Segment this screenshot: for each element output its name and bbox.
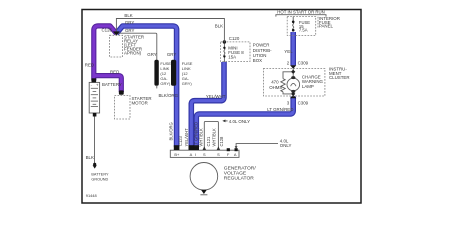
thin wires	[95, 15, 327, 164]
connector C120 dot	[223, 40, 226, 43]
svg-text:4.0L ONLY: 4.0L ONLY	[229, 119, 250, 124]
svg-text:BLK: BLK	[215, 23, 223, 28]
lamp terminal bottom	[291, 90, 295, 93]
generator circle	[190, 163, 218, 191]
terminal A square	[235, 148, 238, 151]
wire into mini fuse	[223, 44, 225, 48]
junction node top	[291, 70, 295, 74]
svg-text:GRY: GRY	[147, 52, 157, 57]
svg-text:C128: C128	[219, 136, 224, 147]
wire mini fuse to YEL/WHT	[223, 56, 225, 62]
svg-text:REGULATOR: REGULATOR	[224, 176, 254, 182]
svg-text:BLK: BLK	[124, 13, 132, 18]
svg-text:15A: 15A	[228, 54, 236, 59]
wire YEL fuse to cluster	[292, 32, 295, 65]
svg-text:A: A	[190, 152, 193, 157]
svg-text:MOTOR: MOTOR	[132, 101, 148, 106]
wire S-loop WHT/BLK C121-C128	[204, 121, 218, 149]
svg-text:YEL/WHT: YEL/WHT	[206, 94, 226, 99]
svg-text:BATTERY: BATTERY	[102, 82, 122, 87]
svg-text:A: A	[234, 152, 237, 157]
interior fuse panel text bracket	[317, 17, 319, 28]
svg-text:GRY: GRY	[167, 52, 177, 57]
border frame (decorative)	[82, 10, 361, 204]
terminal cap A wire	[189, 145, 195, 150]
mini fuse 8 element	[224, 48, 225, 57]
svg-text:7.5A: 7.5A	[299, 28, 308, 33]
svg-text:I: I	[195, 152, 196, 157]
wire GRY to fuse link 1	[116, 33, 156, 60]
battery	[89, 82, 99, 113]
svg-text:RED: RED	[110, 70, 119, 75]
svg-text:GRY): GRY)	[160, 81, 171, 86]
svg-text:C121: C121	[206, 136, 211, 147]
generator ground	[201, 190, 207, 194]
wire RED battery positive (purple core)	[94, 26, 122, 92]
svg-text:BLK/ORG: BLK/ORG	[159, 93, 179, 98]
connector C121 flare	[203, 146, 207, 150]
terminal F square	[227, 148, 230, 151]
connector C309 top triangle	[290, 65, 296, 69]
wire stub below fuse link 1	[156, 86, 158, 88]
starter relay box	[110, 35, 123, 57]
hot in start or run bracket	[276, 15, 326, 17]
svg-text:GENERATOR/: GENERATOR/	[224, 166, 257, 172]
wire battery negative BLK	[94, 116, 96, 163]
vertical wire labels	[168, 122, 224, 146]
svg-text:C126: C126	[102, 27, 113, 32]
fuse 15 terminal dots	[292, 21, 295, 24]
svg-text:C123: C123	[178, 135, 183, 146]
resistor branch bottom	[283, 92, 293, 94]
starter motor terminal	[119, 90, 124, 94]
svg-text:WHT/BLK: WHT/BLK	[199, 128, 204, 146]
power distribution box	[221, 42, 250, 62]
svg-text:WHT/BLK: WHT/BLK	[211, 128, 216, 146]
svg-text:91448: 91448	[86, 193, 97, 198]
svg-text:2: 2	[287, 60, 290, 65]
svg-text:ONLY: ONLY	[280, 143, 292, 148]
svg-text:BOX: BOX	[253, 58, 262, 63]
charge warning lamp circle	[287, 78, 300, 91]
svg-text:S: S	[203, 152, 206, 157]
fuse 15 element	[293, 22, 294, 30]
wire interior fuse feed	[292, 17, 294, 22]
resistor branch left	[283, 72, 293, 79]
svg-text:GRY: GRY	[125, 28, 135, 33]
svg-text:BATTERY: BATTERY	[91, 173, 109, 177]
arrow 4.0L ONLY pointing at S-loop	[224, 120, 228, 122]
svg-text:GROUND: GROUND	[91, 177, 108, 181]
svg-text:BLK: BLK	[86, 155, 94, 160]
starter motor box	[115, 96, 131, 120]
svg-text:GRY: GRY	[125, 20, 135, 25]
svg-text:BLK/ORG: BLK/ORG	[168, 122, 173, 140]
interior fuse panel box	[287, 16, 316, 35]
svg-text:C309: C309	[298, 100, 309, 105]
svg-text:C309: C309	[298, 60, 309, 65]
terminal cap B+ wire	[174, 145, 180, 150]
instrument cluster box	[263, 69, 325, 97]
svg-text:3: 3	[287, 100, 290, 105]
fuse link 2 body	[171, 60, 176, 86]
svg-text:HOT IN START OR RUN: HOT IN START OR RUN	[277, 9, 324, 14]
svg-text:B+: B+	[174, 152, 180, 157]
svg-text:C120: C120	[229, 36, 240, 41]
connector C128 flare	[217, 146, 221, 150]
generator connector strip	[170, 150, 239, 157]
svg-text:YEL: YEL	[284, 49, 293, 54]
wire 4.0L ONLY callout to A terminal	[236, 144, 278, 147]
wire RED battery positive (purple, outline)	[94, 26, 122, 92]
lamp filament	[291, 83, 296, 86]
svg-text:LT GRN/RED: LT GRN/RED	[267, 107, 293, 112]
battery cells	[91, 88, 98, 106]
pin labels	[174, 152, 237, 157]
battery terminal top	[92, 78, 97, 82]
resistor 470 ohms zigzag	[281, 79, 285, 92]
svg-text:APRON): APRON)	[124, 51, 142, 56]
arrowhead 4.0L to A terminal	[235, 146, 238, 149]
svg-text:LAMP: LAMP	[302, 84, 314, 89]
svg-text:YEL/WHT: YEL/WHT	[184, 128, 189, 147]
wire BLK top run to C120	[116, 19, 224, 41]
svg-text:S: S	[217, 152, 220, 157]
mini fuse terminal dots	[223, 47, 225, 49]
svg-text:OHMS: OHMS	[269, 85, 282, 90]
wire GRY / BLK-ORG to B+ (blue core)	[116, 26, 293, 147]
battery ground symbol	[93, 163, 96, 166]
terminal cap I wire	[194, 145, 199, 150]
wire blue outline group (GRY/BLKORG, YELWHT, LTGRNRED, YEL)	[116, 26, 293, 147]
svg-text:GRY): GRY)	[182, 81, 193, 86]
lamp bottom stub	[292, 91, 294, 96]
wire LT GRN/RED to I pin	[196, 97, 293, 147]
junction node bottom	[291, 92, 295, 96]
battery terminal bottom	[93, 113, 97, 117]
svg-text:CLUSTER: CLUSTER	[329, 75, 350, 80]
junction triangle at starter relay	[113, 31, 120, 35]
wire YEL/WHT to A pin	[191, 62, 224, 147]
svg-text:PANEL: PANEL	[319, 24, 334, 29]
dashed boxes	[110, 16, 325, 119]
connector C309 bottom triangle	[290, 95, 296, 99]
svg-text:RED: RED	[85, 62, 94, 67]
cluster node stub top	[292, 69, 294, 78]
fuse link 1 body	[154, 60, 158, 86]
lamp terminal top	[291, 76, 295, 79]
